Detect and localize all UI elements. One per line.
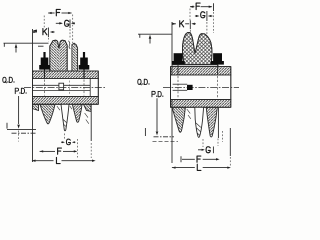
flange band right figure (171, 67, 231, 75)
cap screw left of right figure (172, 53, 185, 64)
bore section right figure (171, 75, 231, 100)
bore section left figure (33, 79, 99, 97)
lower plate band left figure (33, 97, 99, 105)
dimension G bottom left figure (64, 134, 66, 141)
Q.D. label right figure (138, 79, 150, 85)
tooth gap slants (57, 106, 89, 124)
plate top line right figure (172, 64, 218, 66)
right rim step (84, 104, 92, 111)
dimension F bottom left figure (40, 150, 44, 152)
OD reference line top-left (4, 42, 49, 44)
pitch line right figure (154, 136, 175, 138)
dimension F bottom right figure (180, 156, 182, 162)
bushing flange wing left figure (72, 43, 78, 71)
P.D. leader left figure (18, 96, 20, 124)
flange band left figure (33, 71, 99, 79)
shaft bore lines right figure (173, 83, 188, 85)
lower plate band right figure (171, 100, 231, 108)
dimension L bottom left figure (32, 160, 36, 162)
bolt centreline dashes in bore (44, 80, 46, 96)
tooth B (61, 104, 69, 131)
dimension F top-left figure (48, 12, 54, 14)
pitch line tick right figure (144, 128, 146, 136)
tooth gap slants right figure (187, 109, 191, 119)
dimension L bottom right figure (172, 166, 176, 168)
keyway left figure (59, 83, 64, 90)
bushing face line left figure (89, 79, 91, 97)
bolt shank through flange right side of left figure (83, 69, 85, 79)
dimension G bottom right figure (202, 139, 204, 147)
tooth A right figure (172, 107, 185, 132)
phantom tooth edge in gap (68, 41, 70, 49)
rim face line right figure (217, 107, 219, 138)
root line right figure (153, 140, 179, 142)
shaft bore lines left figure (33, 84, 91, 86)
root line left figure (12, 132, 38, 134)
P.D. leader right figure (156, 98, 158, 131)
tooth A (40, 104, 55, 124)
left face extension line right figure (171, 22, 173, 163)
P.D. label right figure (152, 91, 163, 96)
tooth B right figure (195, 107, 204, 137)
bolt centreline dashes in bore right figure (177, 76, 179, 99)
dimension K top-left figure (33, 31, 37, 33)
pitch line tick (6, 123, 8, 129)
OD reference line top-left of right figure (138, 33, 172, 35)
dimension G top right figure (195, 15, 198, 17)
Q.D. label left figure (3, 77, 15, 83)
rim face line (90, 104, 92, 141)
dimension K top right figure (172, 23, 176, 25)
tick at top of face line (33, 30, 37, 32)
cap screw right of left figure (79, 52, 90, 70)
left face extension line left figure (32, 29, 34, 162)
dimension F top right figure (190, 6, 194, 8)
cap screw left of left figure (39, 52, 50, 70)
left rim step (33, 104, 39, 110)
bolt shanks through flange right figure (177, 65, 179, 75)
tooth C (72, 104, 82, 122)
setscrew on centreline right figure (187, 85, 193, 90)
bolt shank through flange left figure (44, 69, 46, 79)
shaft centreline right figure (163, 87, 239, 89)
tooth pair section top of left figure (50, 40, 67, 71)
P.D. label left figure (15, 88, 26, 93)
tooth C right figure (206, 107, 217, 137)
pitch line left figure (7, 128, 36, 130)
tooth pair section top of right figure (182, 32, 212, 64)
dimension G top-left figure (56, 22, 62, 24)
shaft centreline left figure (24, 87, 106, 89)
cap screw right of right figure (211, 53, 224, 64)
